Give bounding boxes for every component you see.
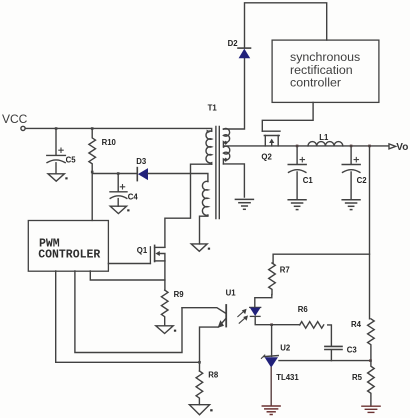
svg-text:C4: C4 [128, 192, 139, 201]
svg-text:T1: T1 [208, 103, 218, 112]
ground (R5) [362, 406, 380, 412]
ground (C2) [342, 200, 360, 210]
resistor R5 [368, 361, 375, 406]
transistor U2 TL431 [261, 355, 278, 368]
node secondary phase dot A [224, 141, 228, 145]
resistor R10 [89, 128, 96, 172]
wire R7 to opto LED [255, 295, 272, 308]
opto-coupler U1 phototransistor [182, 305, 226, 362]
svg-text:R8: R8 [208, 370, 219, 379]
wire TL431 cathode [271, 325, 273, 357]
transistor Q1 [150, 245, 165, 263]
IC synchronous rectification controller box [272, 40, 379, 102]
transformer T1 primary winding [206, 131, 212, 164]
svg-text:R10: R10 [102, 138, 117, 147]
terminal Vo arrow [389, 144, 396, 149]
svg-text:C5: C5 [66, 156, 77, 165]
wire C3 to ref line [330, 350, 332, 361]
opto-coupler U1 light arrows [238, 309, 248, 323]
wire aux winding to ground [200, 215, 208, 244]
wire D2 to sync controller box [245, 3, 327, 48]
svg-text:C1: C1 [303, 176, 314, 185]
wire C2 to ground [350, 172, 352, 200]
wire secondary mid tap / output rail [224, 145, 388, 147]
wire R10 to PWM controller [91, 172, 93, 220]
wire Vo sense tap [273, 146, 369, 263]
svg-text:D2: D2 [228, 39, 239, 48]
svg-text:R6: R6 [298, 305, 309, 314]
resistor R9 [161, 290, 168, 326]
ground (R9) [156, 326, 173, 334]
svg-text:controller: controller [290, 76, 341, 90]
svg-text:U2: U2 [280, 344, 291, 353]
svg-text:VCC: VCC [2, 112, 28, 126]
wire R10 to D3 [92, 173, 136, 175]
svg-text:C3: C3 [347, 345, 358, 354]
capacitor C2 [342, 157, 360, 172]
svg-text:Q1: Q1 [137, 246, 148, 255]
svg-text:C2: C2 [357, 176, 368, 185]
resistor R8 [196, 371, 203, 405]
ground (TL431) [262, 406, 280, 415]
svg-text:D3: D3 [136, 157, 147, 166]
wire LED cathode to junction [255, 316, 271, 324]
wire R6 to C3 [328, 325, 332, 346]
node R8 junction [198, 361, 201, 364]
svg-text:Q2: Q2 [261, 152, 272, 161]
capacitor C3 [325, 346, 342, 349]
wire C1 branch [296, 146, 298, 164]
inductor L1 [308, 142, 343, 146]
wire secondary bottom to ground [223, 164, 244, 197]
ground (C5) [48, 174, 64, 181]
wire C2 branch [350, 146, 352, 164]
label synchronous rectification controller [290, 50, 360, 90]
svg-text:R7: R7 [280, 265, 290, 274]
transformer T1 core [216, 127, 219, 219]
wire sync controller to Q2 gate [262, 102, 313, 131]
node C4 tap junction [117, 172, 120, 175]
wire R8 node [199, 362, 201, 371]
resistor R4 [368, 319, 375, 361]
wire D3 to aux winding [148, 174, 208, 182]
wire Vo tap to R4 [369, 254, 371, 319]
capacitor C5 [47, 148, 66, 163]
wire primary bottom to Q1 drain [165, 164, 212, 247]
wire junction to R6 [272, 324, 300, 326]
ground (C1) [288, 200, 306, 210]
wire C1 to ground [296, 172, 298, 200]
svg-text:R9: R9 [174, 290, 185, 299]
svg-text:L1: L1 [319, 133, 329, 142]
wire PWM to Q1 gate [108, 263, 150, 265]
ground (R8) [189, 405, 209, 415]
wire PWM feedback pin 1 [75, 271, 182, 353]
node R10 bottom junction [91, 171, 94, 174]
IC PWM controller box [28, 221, 108, 272]
VCC terminal [21, 126, 25, 130]
node Vo tap junction [368, 145, 371, 148]
svg-text:U1: U1 [226, 288, 237, 297]
transformer T1 aux winding [202, 181, 207, 215]
diode D3 [137, 168, 148, 181]
transformer T1 secondary winding B [223, 146, 229, 164]
svg-text:Vo: Vo [396, 142, 408, 153]
label PWM CONTROLER [38, 237, 100, 261]
resistor R6 [300, 322, 324, 329]
node C2 tap junction [350, 145, 353, 148]
wire PWM current sense to Q1 source [90, 271, 165, 280]
capacitor C4 [110, 185, 127, 199]
wire C4 branch [117, 174, 119, 192]
node LED cathode junction [270, 323, 273, 326]
resistor R7 [269, 263, 276, 295]
wire C5 branch [55, 128, 57, 155]
wire secondary top to D2 loop [223, 58, 244, 129]
transformer T1 secondary winding A [223, 128, 229, 145]
diode U1 LED [250, 307, 261, 316]
svg-text:TL431: TL431 [276, 373, 299, 382]
svg-text:R4: R4 [351, 320, 362, 329]
wire Q1 source to R9 [164, 261, 166, 290]
svg-text:CONTROLER: CONTROLER [38, 248, 100, 261]
node C5 tap junction [55, 127, 58, 130]
wire TL431 anode to ground [270, 368, 272, 406]
transistor Q2 [262, 131, 280, 146]
svg-text:R5: R5 [352, 373, 363, 382]
capacitor C1 [288, 157, 306, 172]
wire C5 to ground [55, 163, 57, 174]
node C1 tap junction [296, 145, 299, 148]
ground (C4) [110, 206, 126, 213]
node R10 tap junction [91, 127, 94, 130]
wire C4 to ground [117, 199, 119, 207]
ground (secondary) [235, 199, 253, 209]
node secondary phase dot B [224, 158, 228, 162]
wire TL431 ref line [279, 360, 371, 362]
wire PWM feedback pin 2 [56, 271, 200, 362]
diode D2 [238, 48, 251, 58]
node R4 R5 junction [369, 359, 372, 362]
ground (aux winding) [191, 244, 207, 251]
transformer T1 primary phase mark [207, 130, 211, 134]
wire VCC rail [25, 128, 212, 131]
